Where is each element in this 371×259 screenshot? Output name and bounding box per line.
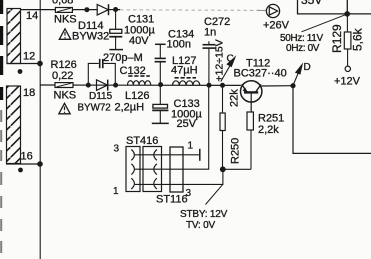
pin 16 stub wire [6, 163, 40, 165]
svg-text:1: 1 [113, 186, 119, 197]
svg-text:BYW72: BYW72 [78, 103, 111, 114]
svg-text:14: 14 [26, 10, 38, 22]
contact lead row 1 [135, 154, 200, 156]
svg-text:100n: 100n [167, 38, 191, 50]
svg-text:R129: R129 [330, 24, 344, 53]
svg-text:R250: R250 [230, 138, 242, 164]
contact lead row 3 standby control [135, 169, 223, 184]
svg-text:NKS: NKS [54, 14, 77, 26]
inductor L126 [128, 81, 151, 85]
+26V output terminal [257, 4, 280, 17]
L126 core dashes [128, 75, 150, 77]
winding W1 polarity dot [18, 69, 23, 74]
node dot rail1 left of D114 [84, 7, 89, 12]
svg-text:47µH: 47µH [171, 65, 198, 77]
node dot rail2 at R250 [220, 83, 225, 88]
transformer winding W1 pins 14-12 [7, 9, 21, 64]
svg-text:D115: D115 [89, 91, 113, 102]
svg-text:2,2µH: 2,2µH [115, 102, 145, 114]
svg-text:3: 3 [114, 144, 120, 155]
pin 12 stub wire [7, 63, 41, 65]
collector wire to output node [261, 85, 293, 87]
node dot rail2 right of D115 [113, 83, 118, 88]
node dot rail2 at C133/C134 [158, 82, 163, 87]
connector ST416 socket half [143, 147, 162, 192]
svg-text:18: 18 [23, 87, 35, 99]
svg-text:270p–M: 270p–M [103, 52, 143, 64]
svg-text:35V: 35V [301, 0, 322, 7]
junction pin 12 [37, 61, 43, 67]
svg-text:12: 12 [23, 51, 35, 63]
base bar [244, 91, 258, 93]
svg-text:0,22: 0,22 [52, 70, 73, 82]
resistor R250 [220, 85, 225, 169]
svg-text:+26V: +26V [263, 20, 290, 32]
collector lead diagonal [256, 84, 261, 92]
transistor T112 circle [241, 81, 262, 112]
node dot rail1 at C131 [113, 7, 118, 12]
svg-text:+12÷15V: +12÷15V [214, 39, 226, 81]
contact lead row 2 to +12V rail [135, 85, 209, 169]
svg-text:0Hz: 0V: 0Hz: 0V [286, 43, 320, 54]
vertical bus wire pins 12+16 common [39, 0, 41, 259]
standby net junction dot [220, 166, 226, 172]
svg-text:C: C [227, 54, 234, 65]
base lead down [250, 92, 252, 112]
capacitor C132 bypass loop [88, 59, 115, 85]
faint top rail continuation to +26V terminal [120, 9, 267, 12]
svg-text:0,68: 0,68 [52, 0, 73, 7]
junction dot at block corner [344, 11, 350, 17]
junction pin 16 [37, 161, 43, 167]
svg-text:1: 1 [188, 141, 194, 152]
svg-text:25V: 25V [177, 118, 197, 130]
fusible resistor 0,68 [55, 8, 72, 13]
diode D114 [97, 4, 108, 15]
svg-text:BYW32: BYW32 [72, 31, 109, 43]
collector output node dot [290, 83, 295, 88]
svg-text:TV: 0V: TV: 0V [186, 220, 216, 231]
svg-text:ST116: ST116 [156, 194, 188, 206]
winding W2 polarity dot [18, 168, 23, 173]
svg-text:1n: 1n [204, 26, 216, 38]
node dot rail2 left of D115 [86, 83, 91, 88]
top rail wire from pin 14 [21, 9, 98, 11]
svg-text:L126: L126 [125, 90, 149, 102]
fusible resistor R126 [55, 83, 73, 88]
capacitor C133 [152, 85, 169, 123]
oscillogram arrow D [293, 62, 310, 85]
svg-text:2,2k: 2,2k [258, 124, 279, 136]
connector ST416 plug half [126, 147, 140, 192]
+12V open terminal [345, 66, 350, 71]
warning triangle (R126) [59, 103, 70, 114]
svg-text:+12V: +12V [334, 76, 361, 88]
STBY callout line [206, 185, 223, 205]
svg-text:R251: R251 [258, 113, 284, 125]
top-right block 35V [298, 0, 348, 14]
svg-text:D: D [304, 62, 311, 73]
svg-text:5,6k: 5,6k [351, 27, 365, 51]
svg-text:NKS: NKS [54, 90, 77, 102]
inductor L127 [173, 81, 200, 85]
node dot rail2 at C272 [207, 83, 212, 88]
oscillogram arrow C [221, 54, 237, 82]
wire from block corner to right edge [347, 13, 371, 15]
connector ST116 body [170, 147, 183, 192]
svg-text:STBY: 12V: STBY: 12V [180, 209, 228, 220]
resistor R251 [247, 112, 253, 169]
pin 1 terminal bar [199, 149, 201, 161]
lower rail wire +12V [40, 84, 241, 86]
svg-text:BC327··40: BC327··40 [234, 68, 287, 80]
transformer winding W2 pins 18-16 [7, 86, 21, 164]
emitter lead diagonal [242, 84, 247, 92]
50Hz callout line [302, 14, 347, 32]
page cut edge dashed border [0, 0, 3, 100]
L127 core dashes [175, 77, 197, 79]
capacitor C131 [109, 10, 123, 50]
svg-text:3: 3 [186, 188, 192, 199]
standby net wire to R251 [223, 168, 251, 170]
diode D115 [97, 80, 108, 91]
svg-text:40V: 40V [129, 35, 149, 47]
warning triangle (0,68) [59, 29, 70, 40]
svg-text:ST416: ST416 [126, 135, 158, 147]
capacitor C134 [155, 44, 166, 85]
wire D114 cathode to C131 node [109, 9, 120, 11]
svg-text:22k: 22k [229, 89, 241, 107]
resistor R129 [344, 14, 351, 66]
capacitor C272 [203, 41, 216, 85]
svg-text:16: 16 [21, 151, 33, 163]
collector output wire down and right [293, 86, 371, 154]
emitter arrow (PNP) [243, 87, 248, 92]
